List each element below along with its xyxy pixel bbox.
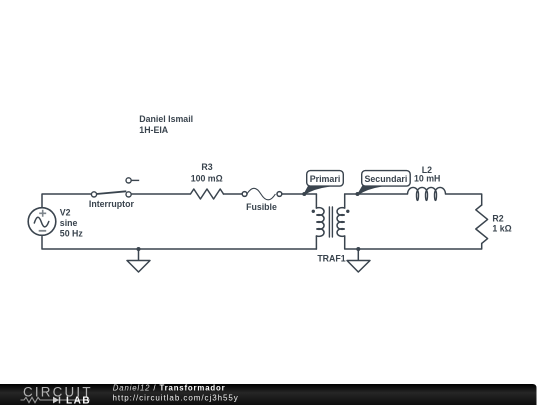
svg-text:TRAF1: TRAF1 xyxy=(317,253,345,263)
svg-text:Secundari: Secundari xyxy=(364,174,407,184)
svg-text:sine: sine xyxy=(60,218,78,228)
svg-text:Interruptor: Interruptor xyxy=(89,199,135,209)
wire L2 to R2 top xyxy=(446,194,482,205)
svg-text:V2: V2 xyxy=(60,207,71,217)
junction node right ground xyxy=(356,247,360,251)
callout Primari xyxy=(304,171,343,195)
inductor L2 xyxy=(408,187,446,200)
junction node left ground xyxy=(137,247,141,251)
svg-text:Fusible: Fusible xyxy=(246,202,277,212)
svg-text:1 kΩ: 1 kΩ xyxy=(492,224,511,234)
svg-text:1H-EIA: 1H-EIA xyxy=(139,125,168,135)
svg-text:Daniel Ismail: Daniel Ismail xyxy=(139,114,193,124)
svg-text:50 Hz: 50 Hz xyxy=(60,228,84,238)
switch SW (Interruptor) xyxy=(91,178,139,197)
logo CIRCUITLAB xyxy=(21,384,93,406)
voltage source V2 xyxy=(28,208,56,236)
svg-text:100 mΩ: 100 mΩ xyxy=(191,174,223,184)
label L2 10 mH xyxy=(414,165,440,184)
svg-text:10 mH: 10 mH xyxy=(414,174,440,184)
wire top-left from V2 to switch xyxy=(42,194,92,208)
wire R3 to fuse xyxy=(224,193,243,195)
wire fuse to transformer primary xyxy=(282,193,316,195)
junction node at Secundari xyxy=(356,192,360,196)
label R3 100 mOhm xyxy=(191,162,223,184)
svg-text:Daniel12 / Transformador: Daniel12 / Transformador xyxy=(113,384,226,393)
label R2 1 kOhm xyxy=(492,214,511,234)
ground (right) xyxy=(347,249,370,272)
callout Secundari xyxy=(358,171,410,195)
wire bottom rail left xyxy=(42,237,316,250)
svg-text:LAB: LAB xyxy=(66,395,91,405)
wire transformer secondary to L2 xyxy=(345,193,408,195)
annotation Daniel Ismail / 1H-EIA xyxy=(139,114,193,135)
svg-text:R3: R3 xyxy=(201,162,212,172)
footer text xyxy=(113,384,239,403)
label V2 sine 50 Hz xyxy=(60,207,84,238)
ground (left) xyxy=(127,249,150,272)
wire R2 bottom rail right xyxy=(345,236,482,249)
svg-text:http://circuitlab.com/cj3h55y: http://circuitlab.com/cj3h55y xyxy=(113,393,239,402)
wire switch to R3 xyxy=(131,193,190,195)
svg-text:Primari: Primari xyxy=(310,174,341,184)
resistor R2 xyxy=(476,205,488,243)
svg-text:R2: R2 xyxy=(492,214,503,224)
junction node at Primari xyxy=(302,192,306,196)
resistor R3 xyxy=(191,189,224,199)
transformer TRAF1 xyxy=(312,194,350,249)
fuse (Fusible) xyxy=(242,188,282,200)
